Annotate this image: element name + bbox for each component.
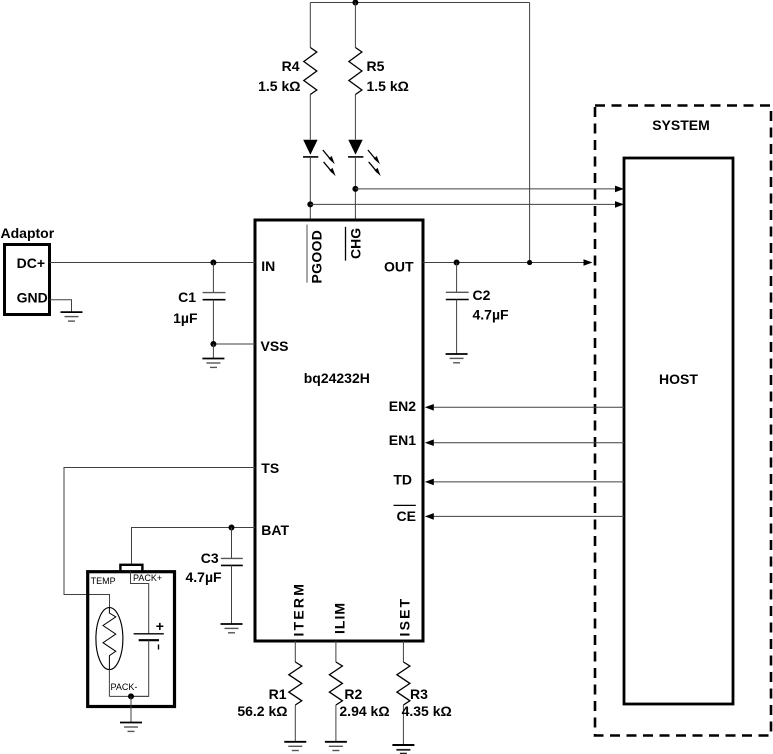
battery minus mark — [158, 645, 160, 650]
wire EN2 — [433, 406, 624, 408]
Adaptor box — [5, 245, 50, 315]
svg-text:ITERM: ITERM — [291, 582, 307, 637]
node C1 tap — [210, 260, 216, 266]
node C3 tap — [229, 525, 235, 531]
svg-text:EN1: EN1 — [389, 432, 416, 448]
node top junction — [352, 0, 358, 6]
node C2 tap — [454, 260, 460, 266]
svg-text:CE: CE — [397, 508, 416, 524]
svg-text:4.35 kΩ: 4.35 kΩ — [402, 703, 452, 719]
op IC U1 bq24232H — [255, 220, 423, 641]
svg-text:HOST: HOST — [659, 371, 698, 387]
HOST box — [624, 158, 733, 704]
LED D1 (PGOOD) — [303, 140, 336, 176]
svg-text:PACK-: PACK- — [111, 682, 138, 692]
resistor R3 — [397, 641, 410, 745]
node PGOOD junction — [307, 201, 313, 207]
ground R2 — [325, 742, 347, 751]
wire right vertical to OUT — [529, 3, 531, 263]
ground R3 — [392, 745, 414, 754]
resistor R4 — [304, 48, 317, 95]
svg-text:ISET: ISET — [397, 597, 413, 637]
svg-text:R5: R5 — [367, 58, 385, 74]
resistor R2 — [329, 641, 342, 741]
wire TD — [433, 481, 624, 483]
ground adaptor — [61, 312, 83, 321]
svg-text:1µF: 1µF — [173, 310, 198, 326]
svg-text:1.5 kΩ: 1.5 kΩ — [258, 78, 300, 94]
svg-text:TD: TD — [393, 472, 412, 488]
svg-text:PACK+: PACK+ — [133, 573, 162, 583]
LED D2 (CHG) — [348, 140, 381, 176]
svg-text:CHG: CHG — [347, 228, 363, 259]
wire VSS — [213, 343, 255, 345]
wire BAT — [132, 528, 256, 565]
wire PACK- — [109, 695, 148, 697]
svg-text:BAT: BAT — [261, 522, 289, 538]
svg-text:C2: C2 — [473, 287, 491, 303]
thermistor RT — [96, 608, 123, 697]
node VSS junction — [210, 341, 216, 347]
ground C2 — [446, 354, 468, 363]
wire CE — [433, 515, 624, 517]
wire LED2 to CHG pin — [354, 157, 356, 220]
svg-text:4.7µF: 4.7µF — [473, 307, 510, 323]
wire R5 top lead — [354, 3, 356, 48]
svg-text:+: + — [156, 618, 164, 634]
svg-text:TS: TS — [261, 460, 279, 476]
ground VSS — [202, 344, 224, 367]
svg-text:1.5 kΩ: 1.5 kΩ — [367, 78, 409, 94]
svg-text:4.7µF: 4.7µF — [186, 569, 223, 585]
svg-text:OUT: OUT — [384, 259, 414, 275]
svg-text:56.2 kΩ: 56.2 kΩ — [237, 703, 287, 719]
capacitor C2 — [446, 263, 469, 354]
capacitor C1 — [203, 263, 226, 345]
capacitor C3 — [221, 528, 243, 624]
ground C3 — [221, 624, 243, 633]
wire EN1 — [433, 442, 624, 444]
svg-text:Adaptor: Adaptor — [1, 225, 55, 241]
wire R4 top lead — [309, 3, 311, 48]
ground battery pack — [120, 723, 142, 732]
resistor R5 — [349, 48, 362, 95]
svg-text:GND: GND — [17, 290, 48, 306]
svg-text:R4: R4 — [282, 58, 300, 74]
svg-text:IN: IN — [261, 258, 275, 274]
battery pack box — [88, 572, 175, 707]
wire top rail — [310, 2, 529, 4]
node CHG junction — [352, 186, 358, 192]
wire R4 to LED1 — [309, 95, 311, 140]
svg-text:EN2: EN2 — [389, 398, 416, 414]
node PACK- junction — [128, 693, 134, 699]
wire CHG to HOST — [355, 188, 615, 190]
svg-text:C3: C3 — [201, 550, 219, 566]
svg-text:R3: R3 — [410, 686, 428, 702]
SYSTEM dashed box — [595, 106, 771, 736]
svg-text:ILIM: ILIM — [332, 602, 348, 634]
wire R5 to LED2 — [354, 95, 356, 140]
wire PACK+ to battery — [131, 572, 149, 634]
svg-text:PGOOD: PGOOD — [309, 230, 325, 284]
wire battery negative — [131, 640, 149, 696]
node OUT/top rail junction — [527, 260, 532, 265]
svg-text:C1: C1 — [178, 289, 196, 305]
wire TS — [64, 468, 255, 608]
svg-text:DC+: DC+ — [17, 255, 45, 271]
svg-text:R2: R2 — [344, 686, 362, 702]
svg-text:TEMP: TEMP — [91, 576, 116, 586]
svg-text:SYSTEM: SYSTEM — [652, 117, 710, 133]
svg-text:VSS: VSS — [261, 338, 289, 354]
svg-text:R1: R1 — [269, 686, 287, 702]
battery terminal bump — [120, 565, 142, 572]
wire LED1 to PGOOD pin — [309, 157, 311, 220]
wire DC+ to IN — [50, 262, 256, 264]
svg-text:2.94 kΩ: 2.94 kΩ — [339, 703, 389, 719]
ground R1 — [284, 742, 306, 751]
svg-text:bq24232H: bq24232H — [304, 370, 370, 386]
battery BT1 plates — [134, 633, 164, 635]
wire to pack ground — [130, 696, 132, 722]
wire adaptor GND — [50, 300, 72, 312]
resistor R1 — [289, 641, 302, 741]
wire OUT — [423, 262, 584, 264]
wire PGOOD to HOST — [310, 203, 615, 205]
